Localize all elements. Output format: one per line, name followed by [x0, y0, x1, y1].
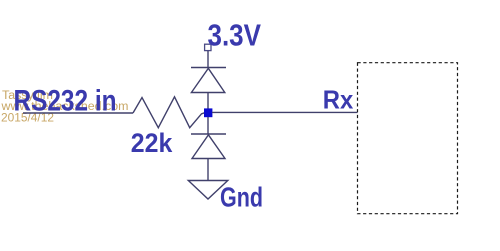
power terminal (3.3V pin square): [205, 44, 211, 50]
svg-text:3.3V: 3.3V: [208, 17, 262, 52]
ground symbol: [188, 181, 228, 200]
svg-text:22k: 22k: [131, 128, 173, 158]
wire: junction node to diode D2 cathode: [207, 117, 209, 134]
diode D2 (clamp to ground): cathode bar: [191, 133, 226, 135]
svg-text:Gnd: Gnd: [220, 181, 263, 212]
svg-text:Rx: Rx: [323, 84, 354, 114]
wire: diode D2 anode to ground: [207, 159, 209, 181]
junction node (solder dot, filled square): [204, 108, 212, 117]
diode D1 triangle: [191, 68, 224, 92]
wire: RS232 input to resistor: [23, 112, 133, 114]
diode D2 triangle: [192, 135, 225, 159]
dashed box (microcontroller outline): [358, 63, 458, 214]
diode D1 (clamp to 3.3V): cathode bar: [191, 67, 226, 69]
wire: diode D1 anode to junction node: [207, 93, 209, 109]
wire: junction node to Rx pin: [212, 111, 358, 113]
wire: 3.3V terminal to diode D1 cathode: [207, 51, 209, 68]
resistor R1 22k: [133, 97, 205, 128]
